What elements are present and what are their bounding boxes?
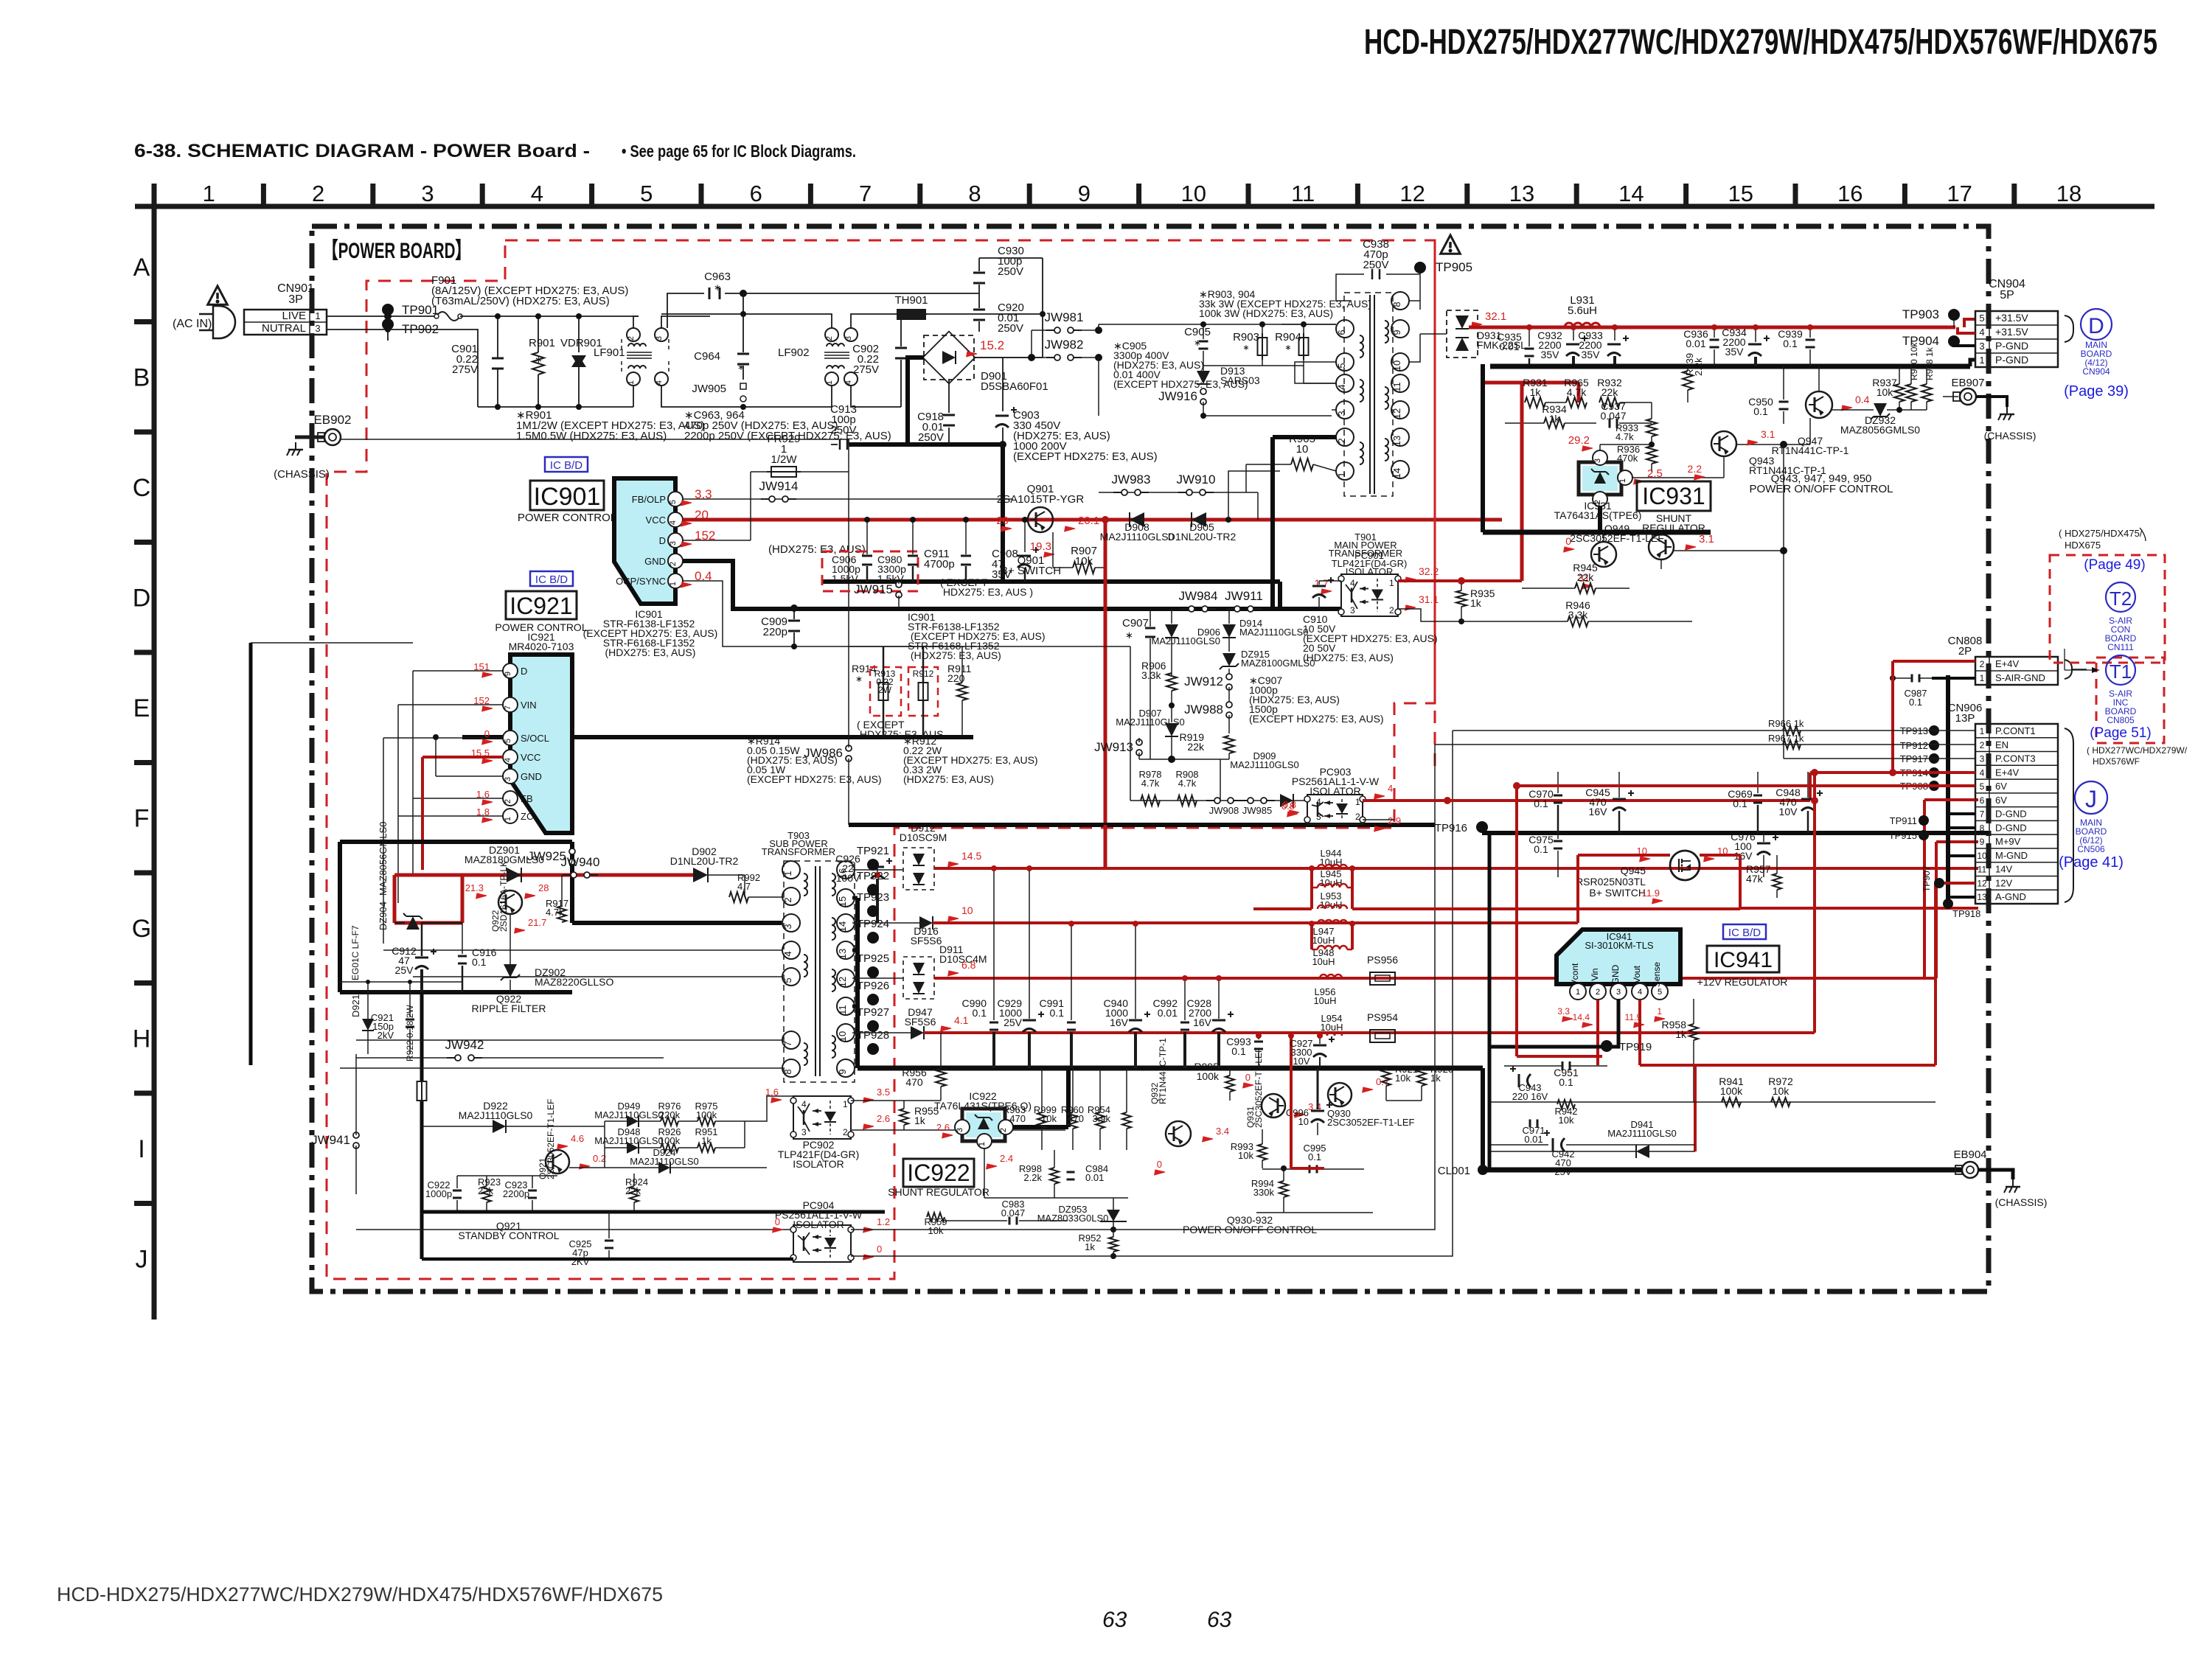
red vertical right 2625 (1934, 908, 1937, 1065)
capacitor C903 (1002, 358, 1004, 411)
transistor Q931 (1262, 1094, 1285, 1118)
svg-text:S-AIR-GND: S-AIR-GND (1995, 672, 2045, 683)
thick bus through secondary mid (1483, 530, 1711, 535)
svg-text:R903: R903 (1233, 331, 1259, 344)
thick bottom Q922 (340, 990, 572, 994)
resistor R940 (1906, 384, 1916, 402)
svg-text:1: 1 (1576, 988, 1580, 997)
wire JW983 JW910 row (1099, 492, 1258, 493)
svg-text:2: 2 (312, 181, 324, 206)
red wire Q931 collector (1281, 1162, 1283, 1164)
svg-text:4: 4 (1388, 783, 1393, 794)
T901 secondary winding (1385, 321, 1388, 343)
red vertical feedback right (1520, 383, 1524, 581)
svg-text:8: 8 (1391, 301, 1402, 307)
svg-text:10: 10 (1181, 181, 1206, 206)
IC B/D label blue box 1 (545, 457, 588, 472)
T903 windings (804, 874, 807, 896)
T901 dashed outline (1344, 293, 1393, 496)
svg-text:2: 2 (999, 1128, 1008, 1132)
svg-text:TP918: TP918 (1952, 908, 1980, 919)
svg-text:32.1: 32.1 (1485, 310, 1506, 323)
wire JW982 vertical down (1098, 358, 1099, 416)
svg-text:0: 0 (1245, 1072, 1251, 1083)
svg-text:HCD-HDX275/HDX277WC/HDX279W/HD: HCD-HDX275/HDX277WC/HDX279W/HDX475/HDX57… (57, 1583, 663, 1606)
jumper JW915 (896, 582, 902, 588)
red jog to pin4 (1958, 327, 1975, 333)
black wire A-GND row13 (1948, 896, 1975, 899)
thick bus y1000 region right (572, 735, 973, 739)
svg-text:12: 12 (1391, 408, 1402, 419)
svg-text:GND: GND (644, 556, 666, 567)
svg-text:D947SF5S6: D947SF5S6 (905, 1006, 936, 1028)
svg-text:TP907: TP907 (1921, 865, 1932, 892)
IC901 pin voltages (679, 497, 692, 509)
svg-text:GND: GND (1610, 964, 1621, 984)
svg-text:∗: ∗ (855, 674, 863, 684)
svg-text:1: 1 (782, 871, 793, 876)
grid row tick 6 (134, 871, 154, 876)
wire Q947 collector (1818, 366, 1820, 391)
svg-text:P-GND: P-GND (1995, 354, 2028, 366)
capacitor C930 (978, 258, 980, 271)
svg-text:R9084.7k: R9084.7k (1175, 769, 1198, 789)
inductor bank brackets 1 (1310, 868, 1313, 909)
wire IC931 pin1 right (1632, 477, 1724, 478)
wire PC904 outputs (851, 745, 1435, 1230)
diode DZ904 symbol (406, 916, 420, 930)
svg-text:8: 8 (1980, 823, 1985, 833)
svg-text:13: 13 (837, 949, 848, 959)
svg-text:JW912: JW912 (1184, 674, 1223, 688)
svg-text:TP927: TP927 (857, 1006, 889, 1019)
svg-text:11.9: 11.9 (1642, 888, 1660, 899)
thick bus TP916 (1476, 821, 1488, 833)
warning triangle 2 (1441, 235, 1461, 254)
svg-text:D: D (659, 535, 666, 546)
svg-text:2.6: 2.6 (936, 1122, 950, 1133)
svg-text:D921: D921 (350, 994, 361, 1017)
grid tick column 8 (1027, 184, 1032, 206)
svg-text:14: 14 (1391, 468, 1402, 478)
svg-text:1: 1 (843, 1099, 848, 1109)
svg-text:2: 2 (1980, 740, 1985, 750)
wire OCP/SYNC (683, 581, 849, 646)
svg-text:4: 4 (531, 181, 543, 206)
svg-text:14.4: 14.4 (1573, 1012, 1590, 1022)
red dashed box T1 (2096, 658, 2164, 743)
grid tick column 12 (1464, 184, 1470, 206)
svg-text:5: 5 (1658, 988, 1662, 997)
svg-text:6V: 6V (1995, 795, 2007, 806)
svg-text:1: 1 (203, 181, 215, 206)
svg-text:R941100k: R941100k (1719, 1075, 1744, 1097)
svg-text:1.6: 1.6 (765, 1087, 779, 1098)
wire to PC902 (745, 1096, 793, 1121)
wire pin8 to D931 (1409, 300, 1420, 301)
thick black bus top right (1490, 364, 1970, 369)
svg-text:JW985: JW985 (1242, 805, 1272, 816)
thick vertical T916 (1481, 1068, 1485, 1170)
red wire to IC931 zone (1522, 381, 1579, 385)
svg-text:2: 2 (825, 336, 834, 341)
svg-text:10: 10 (1977, 851, 1987, 861)
red wire through Q945 (1578, 854, 1670, 857)
red vertical 6V from 6.8 rail (1923, 800, 1926, 978)
svg-text:5: 5 (1336, 363, 1347, 368)
svg-text:10: 10 (837, 1031, 848, 1042)
wire IC931 pin3 up (1599, 444, 1601, 450)
thick black vertical bus right (1946, 675, 1950, 904)
T903 primary pins (782, 861, 800, 879)
svg-text:2.9: 2.9 (1388, 815, 1401, 826)
svg-text:C938470p250V: C938470p250V (1363, 238, 1389, 271)
svg-text:3: 3 (504, 777, 512, 781)
TP913 TP912 TP917 TP914 TP908 testpoints (1929, 725, 1939, 736)
svg-text:L95410uH: L95410uH (1320, 1013, 1343, 1033)
grid tick column 16 (1902, 184, 1907, 206)
red bus taps (1711, 324, 1717, 330)
svg-text:14: 14 (1618, 181, 1644, 206)
IC941 pin 2 Vin (1590, 983, 1606, 1000)
svg-text:JW914: JW914 (759, 479, 799, 493)
grid tick column 6 (808, 184, 813, 206)
red wire 12V row12 (1935, 882, 1975, 885)
transistor Q921 (546, 1150, 569, 1174)
grid row tick 5 (134, 760, 154, 765)
svg-text:MAZ8056GMLS0: MAZ8056GMLS0 (378, 822, 389, 896)
red rail 6V vertical (1924, 786, 1925, 978)
svg-text:3.1: 3.1 (1699, 533, 1714, 545)
svg-text:H: H (133, 1025, 151, 1053)
svg-text:EB904: EB904 (1953, 1148, 1986, 1161)
thick wire IC922 pin2 (1013, 1125, 1068, 1129)
svg-text:9: 9 (1391, 330, 1402, 335)
red rail to M+9V (1935, 842, 1938, 978)
svg-text:R938 1k: R938 1k (1924, 346, 1935, 380)
red wire PC901 pin1 (1398, 579, 1522, 582)
svg-text:1.7: 1.7 (1315, 577, 1329, 589)
transistor Q947 (1806, 391, 1832, 418)
IC921 block (510, 655, 572, 833)
svg-text:EB902: EB902 (313, 413, 351, 427)
svg-text:TP905: TP905 (1436, 260, 1472, 274)
svg-text:4: 4 (1980, 767, 1985, 778)
thick box Q922 right (570, 842, 574, 923)
svg-text:7: 7 (859, 181, 872, 206)
wire EB902 to right (341, 439, 849, 440)
grid tick column 5 (699, 184, 704, 206)
svg-text:6V: 6V (1995, 781, 2007, 792)
svg-text:C9830.047: C9830.047 (1001, 1199, 1026, 1219)
wire LF901 pin2 (633, 316, 639, 328)
grid row tick 7 (134, 980, 154, 986)
CN904 brace (2065, 315, 2073, 342)
TP911 TP915 (1919, 815, 1929, 826)
svg-text:TP923: TP923 (857, 891, 889, 904)
svg-text:C9803300p1.5kV: C9803300p1.5kV (877, 554, 906, 585)
svg-text:4: 4 (801, 1099, 807, 1109)
svg-text:(Page 51): (Page 51) (2090, 725, 2151, 741)
grid tick column 1 (261, 184, 266, 206)
T1 circle (2106, 655, 2135, 685)
svg-text:13: 13 (1977, 892, 1987, 902)
mosfet Q945 B+ switch (1670, 851, 1700, 880)
svg-text:1: 1 (1618, 478, 1627, 483)
svg-text:11: 11 (1391, 382, 1402, 392)
grid row tick 2 (134, 430, 154, 435)
IC901 pin 5 FB/OLP (668, 492, 683, 506)
svg-text:VIN: VIN (521, 700, 537, 711)
svg-text:3: 3 (1980, 754, 1985, 764)
svg-text:14.5: 14.5 (961, 850, 981, 862)
thick join standby to PC904 (420, 1212, 424, 1259)
svg-text:IC B/D: IC B/D (1728, 927, 1761, 939)
jumper JW911 on GND bus (1226, 608, 1235, 610)
svg-text:Vin: Vin (1590, 968, 1600, 980)
svg-text:15: 15 (837, 896, 848, 907)
svg-text:TP904: TP904 (1902, 334, 1939, 348)
svg-text:21.7: 21.7 (528, 917, 546, 928)
svg-text:TP912: TP912 (1900, 740, 1928, 751)
svg-text:4: 4 (1316, 797, 1321, 807)
svg-text:∗: ∗ (737, 362, 745, 372)
wire snubber row (1099, 324, 1336, 325)
capacitor C901 (497, 316, 498, 358)
transistor Q932 (1166, 1121, 1191, 1146)
wire Q950 collector row (1674, 550, 1784, 551)
svg-text:63: 63 (1207, 1608, 1232, 1632)
red dashed box R913 (870, 667, 901, 716)
wire row1030 down to D909 row (1220, 759, 1221, 801)
svg-text:HDX675: HDX675 (2065, 540, 2101, 551)
thick black bus through Q950 (1481, 364, 1485, 532)
svg-text:TP919: TP919 (1619, 1041, 1652, 1053)
red vertical Q931 collector from 4.1 rail (1290, 1036, 1293, 1168)
wire LF901 pin4 (661, 386, 743, 407)
svg-text:12: 12 (1399, 181, 1425, 206)
eyelet EB902 (295, 436, 324, 439)
wire EB902 down join (848, 439, 849, 444)
svg-text:2: 2 (627, 336, 636, 341)
svg-text:S-AIRINCBOARDCN805: S-AIRINCBOARDCN805 (2105, 688, 2137, 725)
svg-text:∗: ∗ (714, 282, 721, 293)
svg-text:5: 5 (1980, 781, 1985, 792)
svg-text:P-GND: P-GND (1995, 340, 2028, 352)
svg-text:0.8: 0.8 (1281, 801, 1295, 812)
wire pin6 (1281, 324, 1336, 325)
svg-text:+31.5V: +31.5V (1995, 326, 2028, 338)
svg-text:E+4V: E+4V (1995, 767, 2019, 778)
svg-text:JW940: JW940 (561, 855, 600, 869)
svg-text:3: 3 (1336, 411, 1347, 416)
svg-text:3: 3 (421, 181, 434, 206)
wire vertical 820 (604, 1121, 605, 1168)
svg-text:JW905: JW905 (692, 383, 726, 395)
svg-text:C909220p: C909220p (761, 616, 787, 638)
svg-text:R967 1k: R967 1k (1768, 733, 1804, 744)
IC941 block (1557, 930, 1680, 984)
svg-text:D-GND: D-GND (1995, 822, 2027, 833)
grid header line (135, 204, 2154, 209)
svg-text:29.2: 29.2 (1568, 434, 1590, 447)
thermistor TH901 (911, 313, 928, 315)
svg-text:∗: ∗ (1194, 338, 1201, 348)
svg-text:0: 0 (877, 1244, 882, 1255)
thick wire bridge minus (908, 358, 924, 444)
grid tick column 14 (1683, 184, 1688, 206)
wire pin10 to D931 (1409, 334, 1420, 362)
capacitor C918 (948, 380, 950, 413)
grid left vertical line (152, 184, 157, 1319)
svg-text:LF901: LF901 (594, 346, 625, 359)
svg-text:4: 4 (504, 758, 512, 762)
svg-text:3: 3 (1979, 341, 1984, 352)
thick secondary bus vertical (855, 898, 860, 1068)
svg-text:GND: GND (521, 771, 542, 782)
svg-text:P.CONT3: P.CONT3 (1995, 753, 2036, 764)
red wire to CN808 pin2 (1893, 660, 1975, 663)
svg-text:PS956: PS956 (1367, 954, 1398, 966)
wire thick pin2 T901 drop (1277, 437, 1279, 609)
thin wire R941 R972 row (1489, 1101, 1935, 1103)
svg-text:3: 3 (956, 1128, 964, 1132)
wire D pin (683, 540, 751, 541)
diode DZ932 (1874, 403, 1887, 416)
svg-text:( HDX275/HDX475/: ( HDX275/HDX475/ (2059, 528, 2143, 539)
red rail E+4V from PC903 (1363, 799, 1810, 802)
svg-text:JW942: JW942 (445, 1038, 484, 1052)
svg-text:Vout: Vout (1632, 965, 1642, 983)
svg-text:3: 3 (669, 541, 678, 545)
svg-text:JW981: JW981 (1045, 310, 1084, 324)
wire row 1625 (984, 1148, 985, 1198)
thick wire PC904 pin3 (422, 1258, 793, 1261)
wire AC bottom rail (478, 406, 633, 408)
wire Q949 Q950 to bus (1603, 532, 1604, 542)
svg-text:T1: T1 (2110, 660, 2132, 683)
capacitor C963 top loop (667, 293, 704, 328)
Q930 transistor (1328, 1083, 1352, 1106)
transistor Q901 B+ switch (1028, 507, 1053, 532)
wire pin4 to snubber (1304, 366, 1336, 383)
bottom rail mid (743, 406, 832, 408)
red wire row6 6V (1936, 798, 1975, 801)
wire pin5 loop (1295, 362, 1336, 383)
svg-text:13: 13 (1391, 436, 1402, 446)
svg-text:J: J (136, 1245, 148, 1273)
svg-text:JW911: JW911 (1225, 589, 1263, 603)
svg-text:4: 4 (1638, 988, 1642, 997)
red 12V rail (1740, 907, 1978, 910)
diode D905 (1192, 512, 1206, 527)
red wire M+9V row9 (1936, 841, 1975, 843)
red wire CN906 rows5 (1517, 784, 1975, 787)
svg-text:21.3: 21.3 (465, 882, 484, 893)
svg-text:R940 10k: R940 10k (1909, 342, 1919, 380)
svg-text:R994330k: R994330k (1251, 1178, 1275, 1198)
red dashed box R912 (908, 667, 938, 716)
thick bus down from C903 row (1001, 444, 1005, 582)
R978 R908 JW908 JW985 row (1130, 800, 1307, 801)
optocoupler PC902 (793, 1096, 851, 1139)
nutral vertical (388, 330, 478, 407)
svg-text:1: 1 (315, 310, 320, 321)
svg-text:JW986: JW986 (804, 746, 843, 760)
IC901 pin 3 D (668, 533, 683, 548)
svg-text:6: 6 (1336, 330, 1347, 335)
svg-text:VCC: VCC (646, 515, 666, 526)
svg-text:(CHASSIS): (CHASSIS) (1984, 430, 2037, 442)
red vertical CN808 feed (1891, 661, 1894, 773)
TP907 TP918 (1934, 878, 1944, 888)
svg-text:15: 15 (1728, 181, 1753, 206)
power board dash-dot border (312, 226, 1989, 1291)
svg-text:TP928: TP928 (857, 1029, 889, 1042)
svg-text:FB: FB (521, 793, 533, 804)
svg-text:1: 1 (1979, 355, 1984, 366)
svg-text:R966 1k: R966 1k (1768, 718, 1804, 729)
jumper JW913 (1136, 739, 1142, 745)
svg-text:TP922: TP922 (857, 870, 889, 882)
transistor Q943 (1711, 431, 1736, 456)
wire top of long vertical (251, 642, 413, 644)
svg-text:3.3: 3.3 (1557, 1006, 1570, 1017)
J circle main board (2075, 781, 2107, 814)
svg-text:EB907: EB907 (1951, 377, 1984, 389)
svg-text:6-38. SCHEMATIC DIAGRAM - P: 6-38. SCHEMATIC DIAGRAM - POWER Board - (134, 141, 590, 161)
svg-text:1: 1 (504, 817, 512, 821)
svg-text:∗: ∗ (1242, 344, 1249, 352)
inductor bank brackets 2 (1310, 924, 1313, 949)
red rail 10V (946, 913, 959, 924)
svg-text:R9784.7k: R9784.7k (1138, 769, 1161, 789)
red bus corner to pin5 (1964, 319, 1975, 327)
jumper JW925 (569, 848, 575, 854)
svg-text:E+4V: E+4V (1995, 658, 2019, 669)
IC901 pin 2 GND (668, 554, 683, 568)
transistor Q922 (498, 890, 522, 914)
svg-text:C9710.01: C9710.01 (1522, 1125, 1545, 1145)
svg-text:11: 11 (837, 1005, 848, 1015)
svg-text:0.4: 0.4 (1855, 394, 1870, 405)
svg-text:2: 2 (843, 1127, 848, 1137)
wire top rail to C963 junction (661, 314, 743, 316)
svg-text:C963: C963 (704, 271, 731, 283)
IC901 pin 1 OCP/SYNC (668, 573, 683, 588)
connector CN901 (244, 310, 327, 335)
T1 arrow (2065, 669, 2099, 671)
svg-text:TP921: TP921 (857, 845, 889, 857)
red wire IC941 vin (1596, 1000, 1599, 1065)
grid row tick 3 (134, 540, 154, 545)
svg-text:F: F (134, 804, 150, 832)
T903 core lines (815, 866, 816, 1076)
svg-text:C: C (133, 474, 151, 502)
diode bridge D901 (924, 335, 974, 380)
svg-text:J: J (2085, 786, 2097, 812)
jumper JW905 (740, 383, 746, 389)
wire FB/OLP (683, 498, 1012, 500)
svg-text:20.1: 20.1 (1078, 515, 1099, 527)
svg-text:2: 2 (1336, 438, 1347, 443)
red rail 6.8V (946, 967, 959, 979)
svg-text:3.1: 3.1 (1761, 428, 1775, 440)
svg-text:(Page 41): (Page 41) (2059, 854, 2124, 871)
grid tick column 4 (589, 184, 594, 206)
IC941 label box (1707, 946, 1779, 972)
svg-text:HCD-HDX275/HDX277WC/HDX279W/HD: HCD-HDX275/HDX277WC/HDX279W/HDX475/HDX57… (1364, 23, 2157, 62)
